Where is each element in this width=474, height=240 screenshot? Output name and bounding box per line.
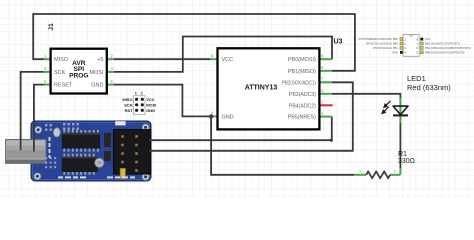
svg-text:+5: +5: [97, 57, 103, 63]
svg-text:SCK: SCK: [54, 70, 66, 76]
DIP pin 4 pad GND: [400, 51, 403, 54]
jumper pins between ICs and header: [104, 133, 111, 161]
pin J1 SCK: [44, 71, 51, 73]
junction GND node: [209, 114, 213, 118]
svg-text:(PCINT3/CLKI/ADC3) PB3: (PCINT3/CLKI/ADC3) PB3: [366, 42, 398, 46]
white silkscreen vertical text left: [49, 137, 51, 158]
USB programmer board PCB: [31, 121, 151, 181]
J1 pin numbers: [44, 54, 114, 84]
svg-text:ATTINY13: ATTINY13: [245, 84, 278, 91]
svg-text:VCC: VCC: [146, 97, 155, 102]
U3 pin numbers: [211, 54, 324, 116]
pin LED1 anode: [399, 98, 401, 116]
electrolytic capacitor: [95, 158, 104, 167]
wire net NRES: ATTINY13 PB5 to board header: [149, 117, 332, 141]
wire net SCK2: ATTINY13 PB2 to board header: [149, 82, 353, 151]
svg-text:RESET: RESET: [54, 83, 73, 89]
pin U3 GND: [210, 115, 217, 117]
svg-text:PROG: PROG: [69, 73, 88, 80]
DIP pin 3 pad: [400, 47, 403, 50]
main DIP IC on board: [62, 130, 100, 152]
wire net SCK: J1 SCK down to programmer board: [21, 72, 44, 150]
blue socket pads left of second IC: [45, 157, 56, 168]
DIP right pin labels: [425, 37, 471, 54]
svg-text:J1: J1: [48, 23, 55, 31]
wire net MISO: J1 MISO to ATTINY13 PB1 via top: [33, 14, 355, 71]
header pin dots: [135, 98, 144, 112]
pin J1 MOSI: [107, 71, 114, 73]
mounting hole top-right: [142, 124, 149, 131]
solder pads top-left of board: [45, 123, 79, 131]
header pin map box: [134, 96, 146, 115]
wire net GND: junction down to R1: [211, 116, 354, 174]
svg-text:PB0 (MOSI/AIN0/OC0A/PCINT0): PB0 (MOSI/AIN0/OC0A/PCINT0): [425, 50, 465, 54]
DIP pin 5 pad: [420, 51, 423, 54]
mounting hole bottom-right: [142, 173, 149, 180]
pin J1 GND: [107, 84, 114, 86]
IC U3 box: [218, 48, 320, 129]
svg-text:PB4(ADC2): PB4(ADC2): [289, 103, 316, 109]
svg-text:GND: GND: [392, 50, 398, 54]
svg-text:2: 2: [394, 170, 396, 174]
svg-text:(PCINT5/RESET/ADC0/dW) PB5: (PCINT5/RESET/ADC0/dW) PB5: [358, 37, 398, 41]
svg-text:MISO: MISO: [54, 57, 69, 63]
DIP pin 8 pad VCC: [420, 38, 423, 41]
crystal: [53, 128, 60, 137]
pin U3 PB2: [319, 81, 332, 83]
yellow jumper component: [120, 168, 125, 178]
resistor R1 zigzag: [366, 171, 390, 178]
svg-text:MOSI: MOSI: [89, 70, 104, 76]
pin J1 RESET: [44, 84, 51, 86]
DIP pin 2 pad: [400, 42, 403, 45]
U3 pin name labels: [222, 57, 317, 120]
LED D1 symbol: [393, 106, 408, 115]
DIP pin 1 pad: [400, 38, 403, 41]
pin U3 PB3: [319, 93, 332, 95]
svg-text:1: 1: [359, 170, 361, 174]
pin J1 MISO: [44, 58, 51, 60]
svg-text:PB2 (SCK/ADC1/T0/PCINT2): PB2 (SCK/ADC1/T0/PCINT2): [425, 42, 460, 46]
svg-text:RST: RST: [125, 108, 134, 113]
J1 title text: [69, 60, 88, 80]
pin J1 +5: [107, 58, 114, 60]
USB-B connector: [6, 139, 47, 163]
10-pin box header on board: [114, 130, 151, 174]
connector J1 box: [51, 49, 107, 94]
DIP left pin labels: [358, 37, 398, 54]
svg-text:MOSI: MOSI: [146, 103, 156, 108]
pin U3 PB5: [319, 116, 331, 118]
pin U3 PB1: [319, 70, 332, 72]
pin LED1 cathode: [399, 115, 401, 123]
header pin map labels: [122, 91, 156, 113]
white silkscreen text bottom: [58, 176, 135, 178]
svg-text:U3: U3: [334, 39, 343, 46]
svg-text:SCK: SCK: [124, 103, 133, 108]
mounting hole bottom-left: [34, 173, 41, 180]
wire net GND: J1 GND to ATTINY13 GND: [114, 85, 210, 117]
svg-text:GND: GND: [146, 108, 155, 113]
unrouted pin U3 PB4 red: [319, 104, 332, 106]
J1 pin name labels: [54, 57, 104, 88]
pin R1 leg2 vertical: [399, 168, 401, 175]
svg-text:PB1 (MISO/AIN1/OC0B/INT0/PCINT: PB1 (MISO/AIN1/OC0B/INT0/PCINT1): [425, 46, 471, 50]
wire LED1 cathode to R1: [399, 123, 401, 169]
second DIP IC on board: [62, 154, 98, 175]
R1 pin numbers: [359, 170, 396, 174]
DIP pin 7 pad: [420, 42, 423, 45]
svg-text:330Ω: 330Ω: [398, 158, 415, 165]
svg-text:Red (633nm): Red (633nm): [407, 83, 451, 92]
pin U3 VCC: [210, 58, 217, 60]
DIP pin 6 pad: [420, 47, 423, 50]
wire net MOSI: J1 MOSI to ATTINY13 PB0: [114, 37, 332, 72]
svg-text:VCC: VCC: [222, 57, 234, 63]
pin R1 leg1: [354, 174, 366, 176]
LED1 emission arrows: [382, 101, 390, 114]
svg-text:GND: GND: [91, 83, 103, 89]
svg-text:PB3(ADC3): PB3(ADC3): [289, 92, 316, 98]
svg-text:VCC: VCC: [425, 37, 431, 41]
white silkscreen label top edge: [115, 121, 125, 125]
svg-text:PB2(SCK/ADC1): PB2(SCK/ADC1): [282, 80, 316, 86]
mounting hole top-left: [35, 126, 42, 133]
svg-text:(PCINT4/ADC2) PB4: (PCINT4/ADC2) PB4: [373, 46, 399, 50]
wire net RESET: J1 RESET down to programmer board: [34, 85, 44, 152]
DIP-8 body: [403, 35, 419, 57]
svg-text:GND: GND: [222, 114, 234, 120]
bendpoint dot PB5 wire: [330, 139, 333, 142]
pin R1 leg2: [390, 174, 400, 176]
svg-text:PB5(NRES): PB5(NRES): [288, 115, 316, 121]
wire net LED: ATTINY13 PB3 to LED1 anode: [332, 94, 400, 100]
pin U3 PB0: [319, 58, 332, 60]
svg-text:PB0(MOSI): PB0(MOSI): [288, 57, 316, 63]
DIP pin numbers: [404, 37, 418, 54]
svg-text:MISO: MISO: [122, 97, 132, 102]
svg-text:LED1: LED1: [407, 74, 426, 83]
wire net +5V: J1 +5 to ATTINY13 VCC: [114, 58, 210, 60]
svg-text:PB1(MISO): PB1(MISO): [288, 69, 316, 75]
